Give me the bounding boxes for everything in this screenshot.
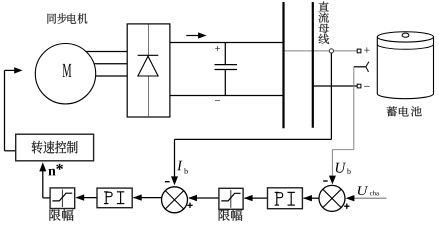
SJ1 plus sign (187, 203, 192, 208)
wire Ib sense horizontal (175, 138, 332, 140)
arrowhead PI1 to limiter1 (75, 194, 84, 200)
SJ1 minus sign (165, 181, 170, 183)
charging plug fork (366, 62, 369, 72)
PI controller 1 box (97, 188, 132, 208)
Ucha label (358, 186, 379, 195)
Ib label (177, 161, 188, 174)
PI controller 2 box (268, 188, 303, 209)
battery - terminal square (357, 84, 361, 88)
wire left feedback horizontal (5, 69, 16, 71)
wire SJ2 to PI2 (304, 197, 320, 199)
wire 3-phase motor line c (90, 75, 127, 77)
wire PI2 to limiter2 (245, 197, 268, 199)
wire capacitor top lead (224, 43, 226, 65)
limiter 2 label 限幅 (219, 209, 243, 220)
wire plug lead (354, 66, 366, 68)
speed control box 转速控制 (16, 134, 94, 161)
arrowhead Ucha into SJ2 (346, 195, 355, 201)
wire Ib sense drop (174, 139, 176, 178)
synchronous motor label 同步电机 (48, 13, 88, 24)
limiter block 2 box (219, 188, 243, 209)
SJ2 plus sign (344, 204, 349, 209)
motor M1 circle (35, 43, 95, 103)
wire limiter1 to speed-ctrl vertical (42, 168, 44, 198)
SJ2 minus sign (323, 180, 328, 182)
wire Ub sense horizontal (332, 149, 353, 151)
arrowhead SJ2 to PI2 (303, 195, 312, 201)
battery - terminal label (364, 85, 370, 88)
wire capacitor bottom lead (224, 70, 226, 96)
wire PI1 to limiter1 (77, 197, 98, 199)
wire DC+ bus to battery terminal (284, 50, 360, 52)
limiter 2 axis (230, 190, 232, 208)
Ib arrow into SJ1 (171, 176, 178, 185)
wire 3-phase motor line a (82, 51, 127, 53)
limiter 1 label 限幅 (50, 209, 74, 220)
capacitor C1 plates (215, 65, 238, 70)
battery B1 cylinder (377, 32, 433, 99)
wire limiter2 to SJ1 (189, 197, 219, 199)
wire limiter1 to speed-ctrl horizontal (43, 197, 50, 199)
arrow into motor (14, 67, 22, 73)
battery label 蓄电池 (387, 106, 422, 116)
limiter block 1 box (50, 188, 75, 209)
DC bus label 直流母线 vertical (318, 2, 329, 44)
wire 3-phase motor line b (90, 63, 127, 65)
current direction arrow on DC+ line (186, 32, 206, 38)
capacitor C1 plus label (215, 46, 220, 51)
n* label (48, 164, 63, 176)
limiter 1 axis (61, 190, 63, 208)
node on DC+ line (329, 49, 333, 53)
wire Ub sense vertical (353, 67, 355, 150)
rectifier diode D1 (138, 55, 159, 76)
arrowhead SJ1 to PI1 (133, 194, 142, 200)
wire DC- rectifier to bus (170, 95, 284, 97)
summing junction SJ2 (319, 185, 345, 211)
arrowhead limiter2 to SJ1 (188, 195, 197, 201)
motor M1 letter M (63, 64, 72, 77)
limiter 1 saturation curve (52, 193, 72, 201)
rectifier internal wire (148, 25, 150, 117)
DC bus bar 1 (282, 2, 284, 128)
battery + terminal square (357, 49, 361, 53)
Ub arrow into SJ2 (329, 176, 336, 185)
limiter 2 saturation curve (221, 193, 240, 201)
rectifier U1 box (127, 24, 170, 117)
wire Ub sense drop (331, 150, 333, 178)
summing junction SJ1 (162, 187, 188, 213)
battery + terminal label (364, 47, 370, 53)
wire SJ1 to PI1 (134, 197, 163, 199)
capacitor C1 minus label (215, 99, 220, 102)
wire DC+ rectifier to bus (170, 42, 284, 44)
wire DC- bus to battery terminal (313, 85, 359, 87)
wire speed-ctrl left stub (5, 150, 16, 152)
wire left feedback vertical (4, 70, 6, 150)
n* setpoint arrow (39, 162, 46, 171)
wire Ib sense vertical from node (330, 52, 332, 140)
DC bus bar 2 (312, 2, 314, 128)
wire Ucha input (348, 197, 386, 199)
arrowhead PI2 to limiter2 (244, 195, 253, 201)
Ub label (336, 163, 351, 174)
